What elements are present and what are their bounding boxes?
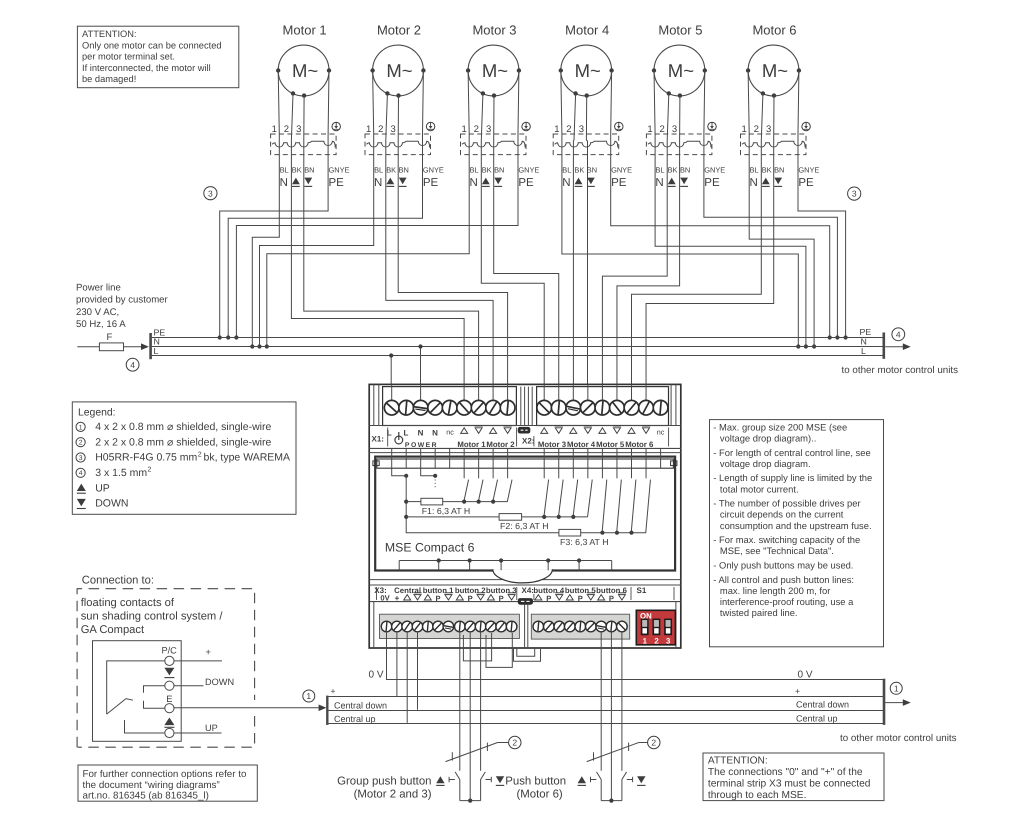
svg-text:Motor 1: Motor 1 (457, 440, 486, 449)
svg-text:1: 1 (462, 124, 467, 135)
svg-text:Motor 1: Motor 1 (283, 23, 327, 38)
svg-text:4: 4 (896, 329, 901, 339)
svg-text:3: 3 (208, 188, 213, 198)
svg-text:S1: S1 (637, 586, 647, 595)
svg-text:Central up: Central up (334, 714, 376, 724)
svg-text:BN: BN (587, 166, 597, 175)
svg-text:BL: BL (562, 166, 571, 175)
svg-text:3: 3 (579, 124, 584, 135)
svg-text:F3: 6,3 AT H: F3: 6,3 AT H (560, 537, 609, 547)
svg-text:BK: BK (668, 166, 678, 175)
svg-text:Central: Central (394, 586, 421, 595)
svg-text:If interconnected, the motor w: If interconnected, the motor will (82, 63, 211, 73)
svg-text:MSE, see "Technical Data".: MSE, see "Technical Data". (720, 545, 834, 556)
svg-text:Central up: Central up (796, 714, 838, 724)
svg-text:PE: PE (704, 177, 720, 189)
svg-text:BK: BK (482, 166, 492, 175)
svg-text:Motor 4: Motor 4 (565, 23, 609, 38)
svg-text:N: N (418, 429, 424, 438)
svg-text:PE: PE (329, 177, 345, 189)
svg-text:Motor 6: Motor 6 (625, 440, 654, 449)
svg-text:3: 3 (486, 124, 491, 135)
svg-text:3: 3 (766, 124, 771, 135)
svg-text:1: 1 (643, 636, 648, 645)
svg-text:- Length of supply line is lim: - Length of supply line is limited by th… (713, 472, 872, 483)
svg-text:N: N (154, 337, 160, 347)
svg-text:PE: PE (798, 177, 814, 189)
svg-text:Motor 2: Motor 2 (377, 23, 421, 38)
svg-text:P: P (468, 594, 473, 603)
svg-text:through to each MSE.: through to each MSE. (708, 790, 807, 801)
svg-text:BK: BK (574, 166, 584, 175)
svg-text:2: 2 (198, 451, 202, 458)
svg-text:+: + (331, 686, 336, 696)
svg-text:PE: PE (518, 177, 534, 189)
svg-text:N: N (750, 177, 758, 189)
svg-text:Power line: Power line (76, 282, 121, 293)
svg-text:- Only push buttons may be use: - Only push buttons may be used. (713, 560, 853, 571)
svg-text:L: L (387, 429, 392, 438)
svg-text:be damaged!: be damaged! (82, 74, 136, 84)
svg-text:DOWN: DOWN (95, 498, 128, 510)
svg-text:3: 3 (672, 124, 677, 135)
svg-text:the document “wiring diagrams”: the document “wiring diagrams” (83, 780, 220, 791)
svg-text:L: L (404, 429, 409, 438)
svg-text:3 x 1.5 mm: 3 x 1.5 mm (95, 467, 147, 479)
svg-text:2: 2 (512, 738, 517, 748)
svg-text:50 Hz, 16 A: 50 Hz, 16 A (76, 319, 126, 330)
svg-text:ATTENTION:: ATTENTION: (708, 756, 768, 767)
svg-text:0 V: 0 V (798, 669, 813, 680)
svg-text:M~: M~ (482, 60, 508, 81)
svg-text:UP: UP (95, 482, 110, 494)
svg-text:POWER: POWER (405, 442, 438, 449)
svg-text:1: 1 (894, 683, 899, 693)
svg-text:F1: 6,3 AT H: F1: 6,3 AT H (422, 506, 471, 516)
svg-text:1: 1 (554, 124, 559, 135)
svg-text:230 V AC,: 230 V AC, (76, 307, 119, 318)
svg-text:E: E (166, 694, 172, 704)
svg-text:Motor 5: Motor 5 (658, 23, 702, 38)
svg-text:Group push button: Group push button (337, 776, 431, 788)
svg-text:BL: BL (750, 166, 759, 175)
svg-text:GNYE: GNYE (704, 166, 725, 175)
svg-text:terminal strip X3 must be conn: terminal strip X3 must be connected (708, 779, 871, 790)
svg-text:M~: M~ (292, 60, 318, 81)
svg-text:ATTENTION:: ATTENTION: (82, 29, 137, 39)
svg-text:BN: BN (304, 166, 314, 175)
svg-text:P: P (609, 594, 614, 603)
svg-text:to other motor control units: to other motor control units (842, 365, 959, 376)
svg-text:H05RR-F4G 0.75 mm: H05RR-F4G 0.75 mm (95, 452, 197, 464)
svg-text:bk, type WAREMA: bk, type WAREMA (204, 452, 291, 464)
svg-text:P: P (546, 594, 551, 603)
svg-text:P: P (499, 594, 504, 603)
svg-text:BN: BN (399, 166, 409, 175)
svg-text:X1:: X1: (372, 435, 384, 444)
svg-text:Motor 5: Motor 5 (596, 440, 625, 449)
svg-text:2: 2 (79, 440, 83, 447)
svg-text:- The number of possible drive: - The number of possible drives per (713, 498, 860, 509)
svg-text:2: 2 (754, 124, 759, 135)
svg-text:BL: BL (656, 166, 665, 175)
svg-text:to other motor control units: to other motor control units (840, 733, 957, 744)
svg-text:art.no. 816345 (ab 816345_l): art.no. 816345 (ab 816345_l) (83, 790, 209, 801)
svg-text:F: F (107, 332, 113, 343)
svg-text:3: 3 (391, 124, 396, 135)
svg-text:2: 2 (651, 738, 656, 748)
svg-text:2: 2 (148, 467, 152, 474)
svg-text:4: 4 (79, 470, 83, 477)
svg-text:per motor terminal set.: per motor terminal set. (82, 52, 175, 62)
svg-text:Push button: Push button (505, 776, 566, 788)
svg-text:2 x 2 x 0.8 mm ⌀ shielded, sin: 2 x 2 x 0.8 mm ⌀ shielded, single-wire (95, 436, 271, 448)
svg-text:For further connection options: For further connection options refer to (83, 769, 247, 780)
svg-text:+: + (795, 686, 800, 696)
svg-text:GA Compact: GA Compact (81, 624, 145, 636)
svg-text:3: 3 (666, 636, 671, 645)
svg-text:M~: M~ (668, 60, 694, 81)
svg-text:(Motor 2 and 3): (Motor 2 and 3) (354, 788, 432, 800)
svg-text:- For length of central contro: - For length of central control line, se… (713, 447, 870, 458)
svg-text:M~: M~ (386, 60, 412, 81)
svg-text:BN: BN (774, 166, 784, 175)
svg-text:BK: BK (762, 166, 772, 175)
svg-text:L: L (154, 346, 159, 356)
svg-text:Motor 3: Motor 3 (472, 23, 516, 38)
svg-text:P: P (578, 594, 583, 603)
svg-text:3: 3 (852, 189, 857, 199)
svg-text:1: 1 (306, 691, 311, 701)
svg-text:0 V: 0 V (368, 669, 383, 680)
svg-text:consumption and the upstream f: consumption and the upstream fuse. (720, 520, 872, 531)
svg-text:3: 3 (79, 455, 83, 462)
svg-text:BL: BL (280, 166, 289, 175)
svg-text:GNYE: GNYE (518, 166, 539, 175)
svg-text:2: 2 (474, 124, 479, 135)
svg-text:BN: BN (494, 166, 504, 175)
svg-text:circuit depends on the current: circuit depends on the current (720, 509, 844, 520)
svg-text:1: 1 (366, 124, 371, 135)
svg-text:L: L (861, 346, 866, 356)
svg-text:GNYE: GNYE (798, 166, 819, 175)
svg-text:(Motor 6): (Motor 6) (517, 788, 563, 800)
svg-text:M~: M~ (575, 60, 601, 81)
svg-text:BL: BL (374, 166, 383, 175)
svg-text:UP: UP (205, 723, 218, 733)
svg-text:interference-proof routing, us: interference-proof routing, use a (720, 596, 854, 607)
svg-text:N: N (655, 177, 663, 189)
svg-text:BK: BK (292, 166, 302, 175)
svg-text:M~: M~ (762, 60, 788, 81)
svg-text:Central down: Central down (334, 701, 387, 711)
svg-text:N: N (470, 177, 478, 189)
svg-text:- Max. group size 200 MSE (see: - Max. group size 200 MSE (see (713, 421, 847, 432)
svg-text:BK: BK (386, 166, 396, 175)
svg-text:N: N (562, 177, 570, 189)
svg-text:F2: 6,3 AT H: F2: 6,3 AT H (500, 521, 549, 531)
svg-text:X4:: X4: (522, 586, 534, 595)
svg-text:max. line length 200 m, for: max. line length 200 m, for (720, 585, 830, 596)
svg-text:3: 3 (296, 124, 301, 135)
svg-text:Motor 3: Motor 3 (538, 440, 567, 449)
svg-text:X2:: X2: (522, 437, 534, 446)
svg-text:- All control and push button: - All control and push button lines: (713, 574, 854, 585)
svg-text:voltage drop diagram.: voltage drop diagram. (720, 458, 811, 469)
svg-text:P/C: P/C (162, 646, 178, 656)
svg-text:provided by customer: provided by customer (76, 295, 169, 306)
svg-text:Legend:: Legend: (78, 407, 116, 418)
svg-text:nc: nc (657, 428, 665, 437)
svg-text:Motor 4: Motor 4 (567, 440, 596, 449)
svg-text:GNYE: GNYE (329, 166, 350, 175)
svg-text:GNYE: GNYE (423, 166, 444, 175)
svg-text:Motor 6: Motor 6 (752, 23, 796, 38)
svg-text:Motor 2: Motor 2 (486, 440, 515, 449)
svg-text:BN: BN (680, 166, 690, 175)
svg-text:N: N (861, 336, 867, 346)
svg-text:DOWN: DOWN (205, 677, 234, 687)
svg-text:1: 1 (742, 124, 747, 135)
svg-text:0V: 0V (380, 593, 390, 602)
svg-text:2: 2 (566, 124, 571, 135)
svg-text:2: 2 (284, 124, 289, 135)
svg-text:- For max. switching capacity: - For max. switching capacity of the (713, 534, 860, 545)
svg-text:4: 4 (130, 360, 135, 370)
svg-text:GNYE: GNYE (611, 166, 632, 175)
svg-text:Central down: Central down (796, 699, 849, 709)
svg-text:voltage drop diagram)..: voltage drop diagram).. (720, 433, 816, 444)
svg-text:The connections "0" and "+" of: The connections "0" and "+" of the (708, 767, 863, 778)
svg-text:N: N (374, 177, 382, 189)
svg-text:total motor current.: total motor current. (720, 483, 799, 494)
svg-text:N: N (280, 177, 288, 189)
svg-text:PE: PE (611, 177, 627, 189)
svg-text:BL: BL (470, 166, 479, 175)
svg-text:Connection to:: Connection to: (82, 574, 154, 586)
svg-text:twisted paired line.: twisted paired line. (720, 607, 798, 618)
svg-text:N: N (432, 429, 438, 438)
svg-text:nc: nc (446, 428, 454, 437)
svg-text:+: + (206, 647, 211, 657)
svg-text:sun shading control system /: sun shading control system / (81, 611, 224, 623)
svg-text:PE: PE (423, 177, 439, 189)
svg-text:floating contacts of: floating contacts of (81, 597, 175, 609)
svg-text:1: 1 (79, 424, 83, 431)
svg-text:P: P (436, 594, 441, 603)
svg-text:2: 2 (660, 124, 665, 135)
svg-text:1: 1 (272, 124, 277, 135)
svg-text:4 x 2 x 0.8 mm ⌀ shielded, sin: 4 x 2 x 0.8 mm ⌀ shielded, single-wire (95, 421, 271, 433)
svg-text:2: 2 (654, 636, 659, 645)
svg-text:2: 2 (378, 124, 383, 135)
svg-text:1: 1 (647, 124, 652, 135)
svg-text:Only one motor can be connecte: Only one motor can be connected (82, 40, 222, 50)
svg-text:MSE Compact 6: MSE Compact 6 (385, 540, 475, 554)
